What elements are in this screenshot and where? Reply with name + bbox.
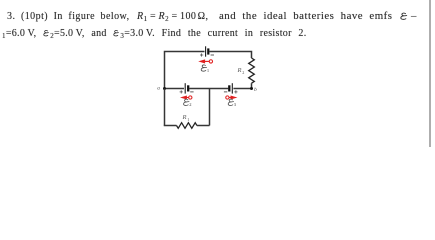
battery E1 (short thick plate) xyxy=(207,48,209,54)
wire: middle horizontal, battery E2 to junction and battery E3 xyxy=(189,88,228,90)
label E1 (script emf symbol) xyxy=(201,65,206,71)
battery E3 minus sign xyxy=(224,91,227,93)
battery E3 (short thick plate, left) xyxy=(228,85,230,91)
svg-text:1: 1 xyxy=(187,117,189,122)
problem text line 2 xyxy=(2,28,307,39)
battery E2 (long plate) xyxy=(184,83,186,93)
resistor R1 (bottom zigzag) xyxy=(177,123,197,129)
svg-text:R: R xyxy=(237,67,242,74)
wire: right branch below R2 down to node b xyxy=(251,83,253,88)
resistor R2 (right branch zigzag) xyxy=(249,58,255,83)
wire: bottom side, left segment to resistor R1 xyxy=(165,124,177,127)
wire: top side, left segment to battery E1 xyxy=(165,52,205,89)
page right-edge rule xyxy=(429,0,431,147)
label E2 (script emf symbol) xyxy=(184,99,189,105)
battery E1 minus sign xyxy=(211,54,214,56)
emf arrow E2 (points left, tail circle right) xyxy=(180,95,192,99)
wire: middle horizontal, node a to battery E2 xyxy=(165,88,185,90)
wire: top side, right segment from battery E1 to top-right corner xyxy=(210,52,252,59)
wire: bottom side, right segment from R1 to inner vertical xyxy=(197,125,210,127)
node a xyxy=(163,87,166,90)
svg-text:1: 1 xyxy=(207,68,209,73)
battery E2 minus sign xyxy=(190,91,193,93)
battery E2 plus sign xyxy=(180,90,183,93)
svg-text:R: R xyxy=(182,114,187,121)
svg-text:3: 3 xyxy=(234,102,237,107)
svg-text:2: 2 xyxy=(189,102,191,107)
emf arrow E1 (points left, tail circle right) xyxy=(198,59,212,63)
battery E2 (short thick plate) xyxy=(187,85,189,91)
svg-text:b: b xyxy=(254,87,257,93)
node b xyxy=(250,87,253,90)
wire: inner vertical from middle wire down to bottom-right of lower loop xyxy=(209,89,211,126)
battery E3 plus sign xyxy=(234,90,237,93)
svg-text:a: a xyxy=(157,85,160,91)
battery E3 (long plate, right) xyxy=(231,83,233,93)
wire: middle horizontal, battery E3 to node b xyxy=(233,88,251,90)
svg-text:2: 2 xyxy=(242,70,244,75)
wire: left side from node a down to bottom-left corner xyxy=(164,89,166,126)
battery E1 plus sign xyxy=(200,53,203,56)
problem text line 1 xyxy=(0,10,435,12)
emf arrow E3 (points right, tail circle left) xyxy=(226,95,238,99)
circuit schematic xyxy=(0,0,435,147)
battery E1 (long plate) xyxy=(205,46,207,56)
label E3 (script emf symbol) xyxy=(228,99,233,105)
